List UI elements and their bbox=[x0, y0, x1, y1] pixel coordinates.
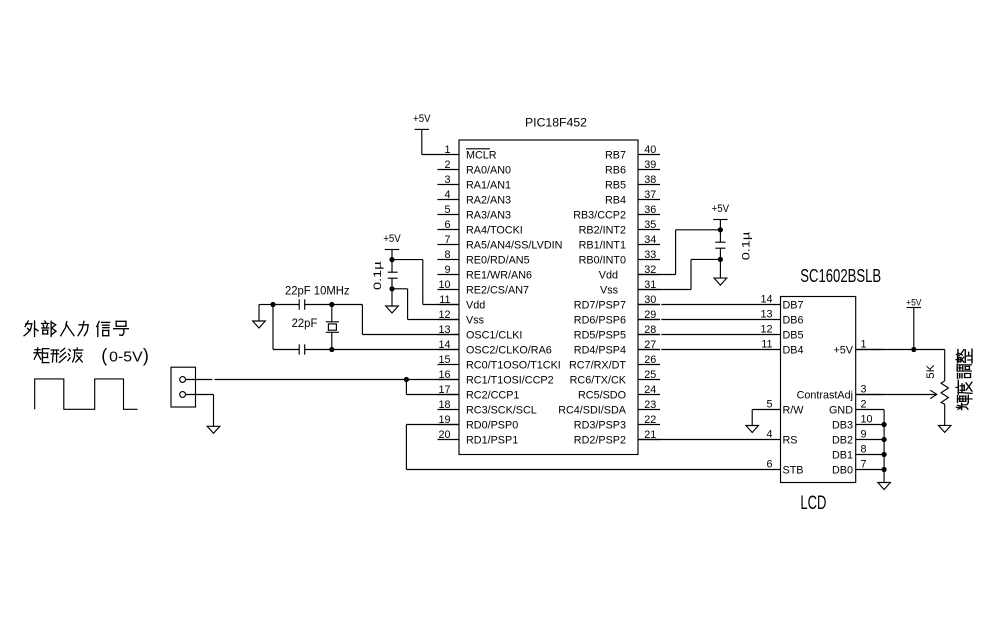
U1 pin 30 RD7/PSP7 bbox=[574, 294, 660, 312]
U1 pin 22 RD3/PSP3 bbox=[574, 414, 660, 432]
ground below C4 bbox=[714, 278, 727, 285]
VR1 wiper arrow bbox=[856, 394, 937, 396]
svg-text:40: 40 bbox=[644, 144, 656, 156]
wire U1 pin 31 Vss to C4 bottom bbox=[638, 259, 720, 289]
svg-text:9: 9 bbox=[861, 429, 867, 441]
wire +5V to U1 pin 1 bbox=[422, 129, 438, 154]
svg-text:0.1µ: 0.1µ bbox=[741, 231, 753, 260]
svg-text:10: 10 bbox=[861, 414, 873, 426]
LCD pin 13 DB6 bbox=[760, 309, 803, 327]
ground below VR1 bbox=[938, 425, 951, 432]
svg-text:RB6: RB6 bbox=[605, 165, 626, 177]
svg-text:5K: 5K bbox=[925, 364, 937, 379]
svg-text:DB5: DB5 bbox=[783, 330, 804, 342]
svg-text:Vss: Vss bbox=[466, 315, 485, 327]
svg-text:GND: GND bbox=[829, 405, 853, 417]
wire J1 pin1 to node D (with small original gap) bbox=[186, 379, 407, 381]
svg-text:RD6/PSP6: RD6/PSP6 bbox=[574, 315, 626, 327]
wire C2 to node C bbox=[305, 349, 332, 351]
wire C3 bottom to U1 pin 12 Vss bbox=[392, 289, 459, 320]
svg-text:RB7: RB7 bbox=[605, 150, 626, 162]
svg-text:SC1602BSLB: SC1602BSLB bbox=[800, 266, 881, 286]
wire U1 pin 21 RD2 to LCD RS bbox=[638, 439, 781, 441]
U1 pin 7 RA5/AN4/SS/LVDIN bbox=[438, 234, 563, 252]
ground below R/W bbox=[746, 426, 759, 433]
ground crystal section bbox=[253, 321, 266, 328]
svg-text:RD7/PSP7: RD7/PSP7 bbox=[574, 300, 626, 312]
U1 pin 26 RC7/RX/DT bbox=[569, 354, 660, 372]
svg-text:5: 5 bbox=[444, 204, 450, 216]
U1 pin 6 RA4/TOCKI bbox=[438, 219, 523, 237]
capacitor C1 22pF bbox=[299, 299, 305, 309]
svg-text:OSC2/CLKO/RA6: OSC2/CLKO/RA6 bbox=[466, 345, 552, 357]
kanji 入 (line1) bbox=[61, 322, 74, 336]
svg-text:R/W: R/W bbox=[783, 405, 805, 417]
svg-text:LCD: LCD bbox=[800, 493, 826, 514]
U1 pin 20 RD1/PSP1 bbox=[438, 429, 519, 447]
LCD pin 2 GND bbox=[829, 399, 884, 417]
svg-text:RB5: RB5 bbox=[605, 180, 626, 192]
svg-text:RB4: RB4 bbox=[605, 195, 626, 207]
LCD pin 9 DB2 bbox=[832, 429, 884, 447]
svg-text:DB0: DB0 bbox=[832, 465, 853, 477]
kanji 外 (line1) bbox=[24, 321, 38, 336]
svg-text:22: 22 bbox=[644, 414, 656, 426]
svg-text:Vdd: Vdd bbox=[466, 300, 485, 312]
svg-text:22pF 10MHz: 22pF 10MHz bbox=[285, 284, 350, 298]
svg-text:DB7: DB7 bbox=[783, 300, 804, 312]
U1 pin 32 Vdd bbox=[599, 264, 660, 282]
svg-text:RC2/CCP1: RC2/CCP1 bbox=[466, 390, 519, 402]
node dot C4 bottom bbox=[718, 257, 723, 262]
svg-text:39: 39 bbox=[644, 159, 656, 171]
svg-text:RB1/INT1: RB1/INT1 bbox=[579, 240, 626, 252]
svg-text:RB2/INT2: RB2/INT2 bbox=[579, 225, 626, 237]
svg-text:18: 18 bbox=[438, 399, 450, 411]
svg-text:PIC18F452: PIC18F452 bbox=[525, 116, 587, 130]
svg-text:4: 4 bbox=[444, 189, 450, 201]
svg-text:35: 35 bbox=[644, 219, 656, 231]
wire U1 pin 29 RD6 to LCD DB6 (small original gap) bbox=[638, 319, 781, 321]
wire +5V to LCD pin 1 bbox=[913, 308, 915, 350]
svg-text:3: 3 bbox=[444, 174, 450, 186]
svg-text:36: 36 bbox=[644, 204, 656, 216]
U1 pin 5 RA3/AN3 bbox=[438, 204, 512, 222]
U1 pin 21 RD2/PSP2 bbox=[574, 429, 660, 447]
svg-text:20: 20 bbox=[438, 429, 450, 441]
node dot DB0 bbox=[882, 467, 887, 472]
wire C1 to node B bbox=[305, 304, 332, 306]
svg-text:+5V: +5V bbox=[833, 345, 853, 357]
ground LCD unused data lines bbox=[878, 483, 891, 490]
svg-text:0.1µ: 0.1µ bbox=[372, 261, 384, 290]
kanji 輝 (vertical, rotated) bbox=[956, 395, 972, 410]
wire U1 pin 30 RD7 to LCD DB7 (small original gap) bbox=[638, 304, 781, 306]
U1 pin 2 RA0/AN0 bbox=[438, 159, 512, 177]
svg-text:6: 6 bbox=[766, 459, 772, 471]
svg-text:8: 8 bbox=[861, 444, 867, 456]
svg-text:7: 7 bbox=[861, 459, 867, 471]
svg-text:RA0/AN0: RA0/AN0 bbox=[466, 165, 511, 177]
svg-text:DB1: DB1 bbox=[832, 450, 853, 462]
U1 pin 33 RB0/INT0 bbox=[579, 249, 660, 267]
svg-text:+5V: +5V bbox=[383, 233, 401, 245]
svg-text:RD1/PSP1: RD1/PSP1 bbox=[466, 435, 518, 447]
LCD pin 14 DB7 bbox=[760, 294, 803, 312]
wire LCD data bus to ground bbox=[883, 410, 885, 483]
node B dot (crystal top) bbox=[329, 302, 334, 307]
svg-text:RC4/SDI/SDA: RC4/SDI/SDA bbox=[558, 405, 627, 417]
square wave symbol bbox=[35, 379, 138, 409]
U1 pin 14 OSC2/CLKO/RA6 bbox=[438, 339, 552, 357]
svg-text:OSC1/CLKI: OSC1/CLKI bbox=[466, 330, 522, 342]
node C dot (crystal bottom) bbox=[329, 347, 334, 352]
svg-text:11: 11 bbox=[761, 339, 772, 351]
U1 pin 10 RE2/CS/AN7 bbox=[438, 279, 530, 297]
wire U1 pin 32 Vdd to C4 top bbox=[638, 230, 720, 275]
svg-text:RE0/RD/AN5: RE0/RD/AN5 bbox=[466, 255, 530, 267]
wire U1 pin 27 RD4 to LCD DB4 (small original gap) bbox=[638, 349, 781, 351]
U1 pin 3 RA1/AN1 bbox=[438, 174, 512, 192]
svg-text:): ) bbox=[143, 346, 149, 366]
U1 pin 9 RE1/WR/AN6 bbox=[438, 264, 533, 282]
svg-text:RC0/T1OSO/T1CKI: RC0/T1OSO/T1CKI bbox=[466, 360, 561, 372]
+5V supply for VR1 bbox=[906, 297, 922, 308]
svg-text:6: 6 bbox=[444, 219, 450, 231]
svg-text:0-5V: 0-5V bbox=[109, 349, 143, 365]
svg-text:DB3: DB3 bbox=[832, 420, 853, 432]
svg-text:RA1/AN1: RA1/AN1 bbox=[466, 180, 511, 192]
U1 pin 19 RD0/PSP0 bbox=[438, 414, 519, 432]
kanji 部 (line1) bbox=[42, 321, 56, 336]
wire node D to U1 pin 17 bbox=[406, 380, 459, 395]
svg-text:22pF: 22pF bbox=[292, 316, 318, 330]
svg-text:8: 8 bbox=[444, 249, 450, 261]
svg-text:RA2/AN3: RA2/AN3 bbox=[466, 195, 511, 207]
svg-text:DB4: DB4 bbox=[783, 345, 804, 357]
svg-text:STB: STB bbox=[783, 465, 804, 477]
svg-text:RE2/CS/AN7: RE2/CS/AN7 bbox=[466, 285, 529, 297]
svg-text:RS: RS bbox=[783, 435, 798, 447]
kanji 度 (vertical, rotated) bbox=[956, 380, 972, 394]
+5V supply for MCLR bbox=[413, 113, 431, 129]
svg-text:MCLR: MCLR bbox=[466, 150, 497, 162]
node A dot (C1 left) bbox=[270, 302, 275, 307]
U1 pin 24 RC5/SDO bbox=[578, 384, 660, 402]
svg-text:3: 3 bbox=[861, 384, 867, 396]
kanji 整 (vertical, rotated) bbox=[956, 349, 972, 363]
U1 pin 1 MCLR bbox=[438, 144, 497, 162]
U1 pin 25 RC6/TX/CK bbox=[570, 369, 660, 387]
ground below J1 bbox=[207, 426, 220, 433]
LCD module SC1602BSLB body bbox=[781, 297, 856, 483]
node dot C4 top bbox=[718, 227, 723, 232]
svg-text:DB2: DB2 bbox=[832, 435, 853, 447]
U1 pin 12 Vss bbox=[438, 309, 485, 327]
U1 pin 29 RD6/PSP6 bbox=[574, 309, 660, 327]
LCD pin 10 DB3 bbox=[832, 414, 884, 432]
U1 pin 28 RD5/PSP5 bbox=[574, 324, 660, 342]
svg-text:ContrastAdj: ContrastAdj bbox=[797, 390, 853, 402]
U1 pin 16 RC1/T1OSI/CCP2 bbox=[438, 369, 554, 387]
wire C3 top to U1 pin 11 Vdd bbox=[392, 260, 459, 305]
svg-text:RA4/TOCKI: RA4/TOCKI bbox=[466, 225, 523, 237]
svg-text:24: 24 bbox=[644, 384, 656, 396]
wire J1 pin2 to ground bbox=[186, 395, 214, 427]
capacitor C4 0.1u bbox=[715, 220, 725, 279]
ground below C3 bbox=[386, 306, 399, 313]
wire node D to U1 pin 16 bbox=[406, 379, 459, 381]
svg-text:34: 34 bbox=[644, 234, 656, 246]
wire node C to U1 pin 14 OSC2 bbox=[332, 349, 459, 351]
svg-text:5: 5 bbox=[766, 399, 772, 411]
LCD pin 12 DB5 bbox=[760, 324, 803, 342]
U1 pin 11 Vdd bbox=[438, 294, 486, 312]
svg-text:14: 14 bbox=[760, 294, 772, 306]
capacitor C3 0.1u bbox=[388, 250, 398, 307]
+5V supply for C3 bbox=[383, 233, 401, 250]
wire LCD R/W to ground bbox=[752, 410, 780, 426]
U1 pin 17 RC2/CCP1 bbox=[438, 384, 520, 402]
kanji 信 (line1) bbox=[97, 321, 110, 336]
U1 pin 13 OSC1/CLKI bbox=[438, 324, 523, 342]
U1 pin 31 Vss bbox=[600, 279, 660, 297]
node dot C3 bottom bbox=[389, 286, 394, 291]
U1 pin 39 RB6 bbox=[605, 159, 660, 177]
LCD pin 5 R/W bbox=[766, 399, 804, 417]
wire LCD pin1 to VR1 top bbox=[856, 350, 945, 381]
U1 pin 15 RC0/T1OSO/T1CKI bbox=[438, 354, 561, 372]
svg-text:RB0/INT0: RB0/INT0 bbox=[579, 255, 626, 267]
U1 pin 23 RC4/SDI/SDA bbox=[558, 399, 660, 417]
svg-text:12: 12 bbox=[760, 324, 772, 336]
svg-text:RD3/PSP3: RD3/PSP3 bbox=[574, 420, 626, 432]
wire node A down to C2 bbox=[273, 305, 299, 350]
potentiometer VR1 5K bbox=[856, 381, 949, 426]
svg-text:+5V: +5V bbox=[712, 203, 730, 215]
svg-text:26: 26 bbox=[644, 354, 656, 366]
svg-text:RC6/TX/CK: RC6/TX/CK bbox=[570, 375, 627, 387]
svg-text:RD2/PSP2: RD2/PSP2 bbox=[574, 435, 626, 447]
svg-text:RD5/PSP5: RD5/PSP5 bbox=[574, 330, 626, 342]
svg-text:RC7/RX/DT: RC7/RX/DT bbox=[569, 360, 626, 372]
svg-text:Vdd: Vdd bbox=[599, 270, 618, 282]
svg-text:33: 33 bbox=[644, 249, 656, 261]
IC U1 PIC18F452 body bbox=[459, 140, 638, 455]
svg-text:RC1/T1OSI/CCP2: RC1/T1OSI/CCP2 bbox=[466, 375, 554, 387]
capacitor C2 22pF bbox=[299, 344, 305, 354]
svg-text:RA3/AN3: RA3/AN3 bbox=[466, 210, 511, 222]
crystal X1 10MHz bbox=[326, 305, 339, 350]
svg-text:9: 9 bbox=[444, 264, 450, 276]
MCLR overline bbox=[466, 148, 490, 150]
node D dot bbox=[404, 377, 409, 382]
node dot DB3 bbox=[882, 422, 887, 427]
LCD pin 7 DB0 bbox=[832, 459, 884, 477]
LCD pin 11 DB4 bbox=[761, 339, 803, 357]
node dot +5V/pin1 bbox=[911, 347, 916, 352]
LCD pin 6 STB bbox=[766, 459, 803, 477]
svg-text:1: 1 bbox=[861, 339, 867, 351]
svg-text:13: 13 bbox=[760, 309, 772, 321]
U1 pin 34 RB1/INT1 bbox=[579, 234, 660, 252]
wire U1 pin 28 RD5 to LCD DB5 (small original gap) bbox=[638, 334, 781, 336]
svg-text:RA5/AN4/SS/LVDIN: RA5/AN4/SS/LVDIN bbox=[466, 240, 562, 252]
LCD pin 1 +5V bbox=[833, 339, 884, 357]
svg-text:(: ( bbox=[101, 346, 107, 366]
svg-text:15: 15 bbox=[438, 354, 450, 366]
U1 pin 40 RB7 bbox=[605, 144, 660, 162]
svg-text:7: 7 bbox=[444, 234, 450, 246]
svg-text:RB3/CCP2: RB3/CCP2 bbox=[573, 210, 626, 222]
kanji 形 (line2) bbox=[51, 348, 66, 362]
wire node B to U1 pin 13 OSC1 bbox=[332, 305, 459, 335]
kanji 調 (vertical, rotated) bbox=[957, 365, 971, 379]
wire ground riser to node A bbox=[259, 305, 273, 322]
kanji 矩 (line2) bbox=[34, 348, 49, 363]
svg-text:25: 25 bbox=[644, 369, 656, 381]
svg-text:RD4/PSP4: RD4/PSP4 bbox=[574, 345, 626, 357]
node dot C3 top bbox=[389, 257, 394, 262]
U1 pin 36 RB3/CCP2 bbox=[573, 204, 660, 222]
U1 pin 4 RA2/AN3 bbox=[438, 189, 512, 207]
svg-text:2: 2 bbox=[861, 399, 867, 411]
svg-text:RE1/WR/AN6: RE1/WR/AN6 bbox=[466, 270, 532, 282]
+5V supply for C4 bbox=[712, 203, 730, 220]
LCD pin 8 DB1 bbox=[832, 444, 884, 462]
svg-text:2: 2 bbox=[444, 159, 450, 171]
svg-text:Vss: Vss bbox=[600, 285, 619, 297]
kanji 力 (line1) bbox=[78, 321, 88, 335]
wire U1 pin 19 RD0 to LCD STB bbox=[406, 425, 780, 470]
svg-text:+5V: +5V bbox=[413, 113, 431, 125]
svg-text:DB6: DB6 bbox=[783, 315, 804, 327]
label (0-5V) bbox=[101, 346, 149, 366]
kanji 波 (line2) bbox=[68, 348, 83, 362]
kanji 号 (line1) bbox=[114, 321, 129, 335]
U1 pin 18 RC3/SCK/SCL bbox=[438, 399, 537, 417]
svg-text:37: 37 bbox=[644, 189, 656, 201]
svg-text:1: 1 bbox=[444, 144, 450, 156]
LCD pin 3 ContrastAdj bbox=[797, 384, 885, 402]
wire node A to C1 bbox=[273, 304, 299, 306]
svg-text:4: 4 bbox=[766, 429, 772, 441]
node dot DB1 bbox=[882, 452, 887, 457]
svg-text:RD0/PSP0: RD0/PSP0 bbox=[466, 420, 518, 432]
svg-text:38: 38 bbox=[644, 174, 656, 186]
svg-text:RC5/SDO: RC5/SDO bbox=[578, 390, 626, 402]
LCD pin 4 RS bbox=[766, 429, 797, 447]
svg-text:RC3/SCK/SCL: RC3/SCK/SCL bbox=[466, 405, 537, 417]
U1 pin 38 RB5 bbox=[605, 174, 660, 192]
U1 pin 8 RE0/RD/AN5 bbox=[438, 249, 530, 267]
connector J1 input bbox=[171, 367, 196, 407]
svg-text:23: 23 bbox=[644, 399, 656, 411]
svg-text:10: 10 bbox=[438, 279, 450, 291]
node dot DB2 bbox=[882, 437, 887, 442]
U1 pin 37 RB4 bbox=[605, 189, 660, 207]
U1 pin 35 RB2/INT2 bbox=[579, 219, 660, 237]
U1 pin 27 RD4/PSP4 bbox=[574, 339, 660, 357]
svg-text:+5V: +5V bbox=[906, 297, 922, 308]
